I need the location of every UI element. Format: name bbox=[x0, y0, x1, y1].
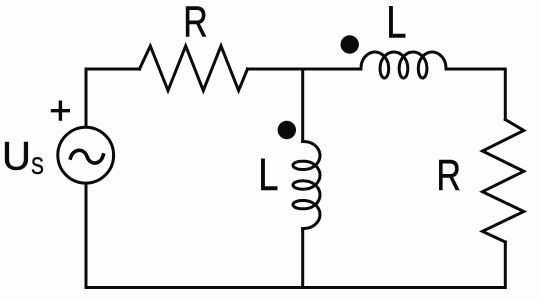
wire bbox=[86, 186, 505, 288]
wire bbox=[446, 69, 505, 120]
inductor L2 bbox=[361, 52, 446, 78]
plus bbox=[51, 101, 70, 121]
resistor R2 bbox=[483, 120, 524, 243]
svg-text:R: R bbox=[437, 151, 461, 200]
wire bbox=[86, 69, 140, 125]
svg-text:L: L bbox=[258, 149, 278, 200]
dot top bbox=[341, 35, 359, 53]
dot middle bbox=[278, 121, 296, 139]
svg-text:R: R bbox=[183, 0, 207, 47]
wire bbox=[301, 229, 304, 288]
svg-text:U: U bbox=[2, 135, 31, 179]
svg-text:L: L bbox=[386, 0, 406, 47]
resistor R1 bbox=[140, 46, 248, 91]
svg-text:S: S bbox=[31, 152, 44, 180]
wire bbox=[248, 68, 362, 71]
inductor L1 bbox=[293, 142, 320, 229]
wire bbox=[301, 69, 304, 142]
source U1 bbox=[58, 127, 114, 183]
